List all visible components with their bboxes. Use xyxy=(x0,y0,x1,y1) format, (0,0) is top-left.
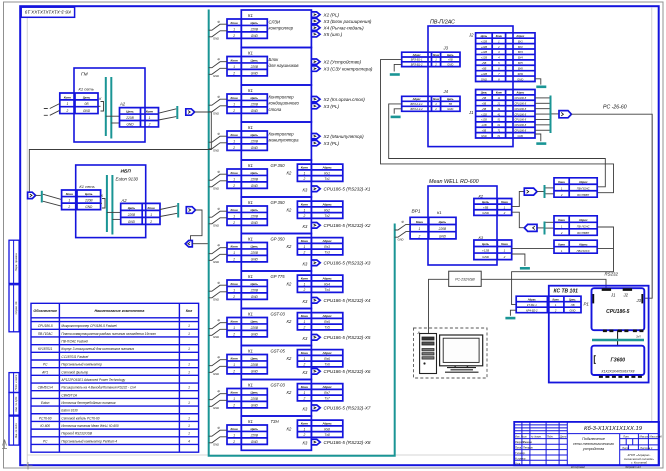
svg-text:РС -26-60: РС -26-60 xyxy=(603,105,627,111)
svg-text:220В: 220В xyxy=(84,199,93,203)
input plug from PV-L xyxy=(524,224,537,231)
svg-text:GND: GND xyxy=(251,221,259,225)
title block frame xyxy=(514,422,659,465)
svg-text:Расширитель на 4 Выхода/Питани: Расширитель на 4 Выхода/Питания RS232 - … xyxy=(61,386,135,390)
svg-text:К3: К3 xyxy=(303,261,308,266)
svg-text:GND: GND xyxy=(439,234,447,238)
svg-text:GND: GND xyxy=(251,184,259,188)
device block U6 GP 350 xyxy=(241,197,311,234)
svg-text:2: 2 xyxy=(67,205,70,209)
svg-text:220В: 220В xyxy=(250,251,259,255)
margin box Инв. № дубл. xyxy=(9,393,19,416)
svg-text:GP 775: GP 775 xyxy=(271,274,286,279)
svg-text:2: 2 xyxy=(232,221,235,225)
svg-text:GND: GND xyxy=(85,205,93,209)
wire J4 pin2 to ground xyxy=(394,109,402,114)
wire K5 to K6 chain down to P1 xyxy=(512,227,614,305)
device block U3 Контроллер кондиционного стола xyxy=(241,85,311,122)
wire bars to A2 of UPS xyxy=(107,211,121,213)
wire J2 to ground xyxy=(535,79,541,85)
svg-text:К1: К1 xyxy=(248,419,253,424)
svg-text:GND: GND xyxy=(251,403,259,407)
svg-text:К1: К1 xyxy=(248,163,253,168)
circuit breaker phase wire to U3 xyxy=(209,99,227,105)
svg-text:Цепь: Цепь xyxy=(251,282,259,286)
svg-text:Tx8: Tx8 xyxy=(324,433,330,437)
svg-text:Адрес: Адрес xyxy=(578,180,588,184)
output connector Х2 of U4 xyxy=(311,134,320,139)
circuit breaker phase wire to U1 xyxy=(209,24,227,30)
svg-text:Адрес: Адрес xyxy=(321,385,332,389)
svg-text:К1: К1 xyxy=(248,312,253,317)
svg-text:Сетевой фильтр: Сетевой фильтр xyxy=(61,370,88,374)
personal computer A dashed box xyxy=(414,328,488,378)
processor module CPU186-5 xyxy=(592,288,645,330)
svg-text:GND: GND xyxy=(126,123,134,127)
svg-text:220В: 220В xyxy=(125,116,134,120)
PC tower drive slots xyxy=(422,337,434,340)
circuit breaker GND wire to U4 xyxy=(209,143,227,149)
svg-text:1: 1 xyxy=(67,102,69,106)
margin box Подп. и дата xyxy=(9,373,19,393)
circuit breaker GND wire to U9 xyxy=(209,329,227,335)
svg-text:1: 1 xyxy=(233,397,235,401)
svg-text:Дата: Дата xyxy=(559,436,567,439)
svg-text:2: 2 xyxy=(303,326,306,330)
svg-text:Формат А3: Формат А3 xyxy=(625,465,641,469)
svg-text:Rx2: Rx2 xyxy=(324,208,330,212)
svg-text:Конн: Конн xyxy=(66,192,73,196)
svg-text:Конн: Конн xyxy=(558,218,565,222)
bar at K5 xyxy=(544,222,546,235)
svg-text:Наименование компонента: Наименование компонента xyxy=(94,309,144,313)
interboard bus bar xyxy=(592,339,644,342)
svg-text:CPU186-5: CPU186-5 xyxy=(606,309,630,315)
ground under K3 xyxy=(520,267,530,270)
svg-text:J1: J1 xyxy=(610,292,615,297)
svg-text:GND: GND xyxy=(213,335,219,339)
svg-text:Копировал: Копировал xyxy=(571,465,585,469)
svg-text:2: 2 xyxy=(303,397,306,401)
GZ600 pin bracket left xyxy=(594,356,596,364)
svg-text:Цепь: Цепь xyxy=(251,427,259,431)
GZ600 pin row bottom xyxy=(599,376,642,378)
svg-text:РС: РС xyxy=(43,363,48,367)
svg-text:Конн: Конн xyxy=(231,282,238,286)
svg-text:Tx7: Tx7 xyxy=(324,397,330,401)
svg-text:Х2 (Устройство): Х2 (Устройство) xyxy=(323,59,362,65)
svg-text:CPU186-5 (RS232)-Х3: CPU186-5 (RS232)-Х3 xyxy=(324,261,371,266)
wire A2 UPS to output bar xyxy=(160,206,177,210)
svg-text:Eaton 9130: Eaton 9130 xyxy=(61,409,78,413)
svg-text:Цепь: Цепь xyxy=(126,110,134,114)
device block U12 ТЗН xyxy=(241,416,311,450)
svg-text:РС-232/USB: РС-232/USB xyxy=(455,278,475,282)
svg-text:1: 1 xyxy=(233,177,235,181)
svg-text:Rx5: Rx5 xyxy=(324,320,330,324)
svg-text:2: 2 xyxy=(560,193,563,197)
svg-text:А2: А2 xyxy=(121,198,128,203)
svg-text:СВН5/ТСА: СВН5/ТСА xyxy=(61,393,77,397)
svg-text:К1: К1 xyxy=(248,200,253,205)
svg-text:220В: 220В xyxy=(250,214,259,218)
svg-text:Адрес: Адрес xyxy=(578,218,588,222)
output connector Х2 of U2 xyxy=(311,59,320,64)
ground under P1 xyxy=(505,317,515,320)
svg-text:ИБП: ИБП xyxy=(121,169,132,175)
svg-text:ЗхЛ: ЗхЛ xyxy=(636,335,641,339)
svg-text:К1: К1 xyxy=(248,13,253,18)
svg-text:РС76-60: РС76-60 xyxy=(39,416,52,420)
circuit breaker phase wire to U10 xyxy=(209,360,227,366)
svg-text:ПВ-П/2СС: ПВ-П/2СС xyxy=(577,249,591,253)
circuit breaker phase wire to U4 xyxy=(209,136,227,142)
circuit breaker GND wire to U3 xyxy=(209,106,227,112)
svg-text:Контроллер: Контроллер xyxy=(269,95,295,100)
margin box Справ. № xyxy=(9,285,19,332)
svg-text:Адрес: Адрес xyxy=(321,351,332,355)
wire K3 pin1 to K6 xyxy=(512,247,554,249)
svg-text:Конн: Конн xyxy=(301,277,308,281)
svg-text:1: 1 xyxy=(149,116,151,120)
wire PC-26-60 to CPU J3 xyxy=(571,114,652,298)
svg-text:1: 1 xyxy=(233,288,235,292)
svg-text:Адрес: Адрес xyxy=(321,422,332,426)
svg-text:2: 2 xyxy=(232,403,235,407)
svg-text:2: 2 xyxy=(149,220,152,224)
wire J4 pin1 to K4 table xyxy=(389,104,606,187)
output connector Х4 of U1 xyxy=(311,25,320,30)
svg-text:Контроллер: Контроллер xyxy=(269,132,295,137)
svg-text:Х2 (Манипулятор): Х2 (Манипулятор) xyxy=(323,134,365,139)
svg-text:2: 2 xyxy=(232,440,235,444)
svg-text:Адрес: Адрес xyxy=(321,277,332,281)
output connector K3 of U12 xyxy=(311,439,320,445)
fold line vertical right xyxy=(651,7,653,422)
svg-text:Конн: Конн xyxy=(231,208,238,212)
svg-text:Н.контр.: Н.контр. xyxy=(515,456,526,460)
svg-text:Конн: Конн xyxy=(301,422,308,426)
svg-text:2: 2 xyxy=(418,234,421,238)
svg-text:Петров: Петров xyxy=(523,446,533,450)
svg-text:Tx1: Tx1 xyxy=(324,177,330,181)
svg-text:GND: GND xyxy=(213,111,219,115)
svg-text:220В: 220В xyxy=(250,288,259,292)
battery bars of GM xyxy=(105,77,107,136)
wire K2 pin2 to plug xyxy=(512,212,525,228)
svg-text:GND: GND xyxy=(251,109,259,113)
svg-text:GND: GND xyxy=(213,223,219,227)
wire P1 pin2 to ground xyxy=(510,310,516,316)
svg-text:1: 1 xyxy=(188,386,190,390)
svg-text:Блок: Блок xyxy=(269,57,280,62)
svg-text:220В: 220В xyxy=(250,65,259,69)
svg-text:К1 сеть: К1 сеть xyxy=(79,87,94,92)
output connector Х5 of U1 xyxy=(311,32,320,37)
svg-text:GND: GND xyxy=(213,442,219,446)
svg-text:GND: GND xyxy=(213,372,219,376)
svg-text:J1: J1 xyxy=(468,110,473,115)
svg-text:К1: К1 xyxy=(248,125,253,130)
svg-text:Х3 (СЗУ контроллера): Х3 (СЗУ контроллера) xyxy=(323,67,373,72)
device block UPS Eaton 9130 xyxy=(76,165,146,238)
svg-text:г. Костанай: г. Костанай xyxy=(631,461,647,465)
svg-text:ПВ-Л/2АС: ПВ-Л/2АС xyxy=(577,224,591,228)
CPU pin bar right xyxy=(641,294,643,303)
svg-text:Eaton 9130: Eaton 9130 xyxy=(116,177,139,182)
PC monitor stand xyxy=(447,368,476,370)
output connector K3 of U5 xyxy=(311,186,320,192)
svg-text:1: 1 xyxy=(188,416,190,420)
PC monitor xyxy=(440,335,483,366)
svg-text:Х2 (Кл.орган.стол): Х2 (Кл.орган.стол) xyxy=(323,97,366,102)
fold line horizontal bottom xyxy=(27,454,514,456)
svg-text:Персональный компьютер: Персональный компьютер xyxy=(61,363,102,367)
svg-text:№ докум.: № докум. xyxy=(531,436,542,439)
svg-text:ПВ-П/2АС: ПВ-П/2АС xyxy=(577,186,591,190)
power bus teal C-shape xyxy=(209,10,395,456)
svg-text:GND: GND xyxy=(213,260,219,264)
svg-text:220В: 220В xyxy=(438,227,447,231)
CPU pin bar left xyxy=(592,294,594,303)
svg-text:контроллер: контроллер xyxy=(269,26,294,31)
svg-text:К1: К1 xyxy=(248,383,253,388)
svg-text:Р1: Р1 xyxy=(584,302,590,307)
svg-text:2: 2 xyxy=(232,34,235,38)
circuit breaker phase wire to U5 xyxy=(209,174,227,180)
svg-text:Адрес: Адрес xyxy=(321,166,332,170)
svg-text:Конн: Конн xyxy=(558,180,565,184)
svg-text:1: 1 xyxy=(233,251,235,255)
svg-text:К1: К1 xyxy=(248,349,253,354)
svg-text:1: 1 xyxy=(188,370,190,374)
svg-text:Rx3: Rx3 xyxy=(324,245,330,249)
svg-text:GP 350: GP 350 xyxy=(271,163,286,168)
svg-text:ВР1: ВР1 xyxy=(412,209,421,215)
CPU pin row top xyxy=(602,288,632,291)
svg-text:1: 1 xyxy=(233,214,235,218)
circuit breaker phase wire to U9 xyxy=(209,323,227,329)
output connector K3 of U9 xyxy=(311,335,320,341)
svg-text:2: 2 xyxy=(303,288,306,292)
device block U9 GST-03 xyxy=(241,309,311,346)
svg-text:Цепь: Цепь xyxy=(482,242,489,246)
svg-text:Rx6: Rx6 xyxy=(324,357,330,361)
svg-text:Персональный компьютер Pentium: Персональный компьютер Pentium 4 xyxy=(61,439,117,443)
svg-text:GND: GND xyxy=(251,34,259,38)
svg-text:Пров.: Пров. xyxy=(515,446,522,450)
center mark bottom xyxy=(24,462,33,470)
wire K2 pin1 to plug xyxy=(512,191,525,206)
svg-text:J3: J3 xyxy=(443,46,449,51)
wire K6 right stub xyxy=(597,247,613,249)
wire UPS output loop xyxy=(191,210,203,241)
svg-text:Конн: Конн xyxy=(231,171,238,175)
svg-text:Конн: Конн xyxy=(148,206,155,210)
svg-text:1: 1 xyxy=(68,199,70,203)
svg-text:Цепь: Цепь xyxy=(251,357,259,361)
svg-text:CPU186-5 (RS232)-Х8: CPU186-5 (RS232)-Х8 xyxy=(324,440,371,445)
PC tower vents xyxy=(422,349,434,351)
svg-text:1: 1 xyxy=(188,432,190,436)
svg-text:Конн: Конн xyxy=(416,220,423,224)
svg-text:Переход RS232/USB: Переход RS232/USB xyxy=(61,432,93,436)
svg-text:Tx6: Tx6 xyxy=(324,363,330,367)
svg-text:А2: А2 xyxy=(119,101,126,106)
svg-text:CPU186-5 (RS232)-Х2: CPU186-5 (RS232)-Х2 xyxy=(324,223,371,228)
svg-text:Сетевой кабель РС76-60: Сетевой кабель РС76-60 xyxy=(61,416,99,420)
svg-text:1: 1 xyxy=(304,427,306,431)
wire J3 pin1 to K4 table xyxy=(381,60,614,193)
svg-text:1: 1 xyxy=(233,65,235,69)
circuit breaker GND wire to U1 xyxy=(209,31,227,37)
svg-text:GND: GND xyxy=(83,109,91,113)
svg-text:Перв. примен.: Перв. примен. xyxy=(14,252,18,271)
svg-text:Конн: Конн xyxy=(231,21,238,25)
svg-text:К2: К2 xyxy=(287,356,292,361)
svg-text:Конн: Конн xyxy=(231,96,238,100)
svg-text:Ю-600: Ю-600 xyxy=(40,424,50,428)
svg-text:СЛЗИ: СЛЗИ xyxy=(269,20,282,25)
circuit breaker GND wire to U8 xyxy=(209,292,227,298)
svg-text:GND: GND xyxy=(398,238,404,242)
svg-text:220В: 220В xyxy=(250,102,259,106)
svg-text:стола: стола xyxy=(269,107,282,112)
ground under J3 xyxy=(390,73,400,76)
svg-text:К1: К1 xyxy=(248,274,253,279)
PC tower power button xyxy=(423,362,425,364)
svg-text:К1: К1 xyxy=(248,51,253,56)
output connector Х3 of U4 xyxy=(311,140,320,145)
svg-text:Утв.: Утв. xyxy=(515,461,521,465)
svg-text:220В: 220В xyxy=(250,177,259,181)
svg-text:К3: К3 xyxy=(303,370,308,375)
interboard link wire xyxy=(617,330,619,346)
svg-text:К1: К1 xyxy=(248,237,253,242)
svg-text:Цепь: Цепь xyxy=(251,21,259,25)
svg-text:РС: РС xyxy=(43,439,48,443)
svg-text:220В: 220В xyxy=(250,363,259,367)
svg-text:Конн: Конн xyxy=(231,427,238,431)
svg-text:К1 сеть: К1 сеть xyxy=(79,184,94,189)
svg-text:J3: J3 xyxy=(636,298,642,303)
svg-text:сети технологического: сети технологического xyxy=(573,442,614,446)
bar at K4 xyxy=(544,185,546,198)
svg-text:Масса: Масса xyxy=(640,434,649,438)
svg-text:БС/ПВВТ: БС/ПВВТ xyxy=(577,193,589,197)
svg-text:CPU186-5: CPU186-5 xyxy=(38,324,53,328)
svg-text:Конн: Конн xyxy=(501,242,508,246)
svg-text:1: 1 xyxy=(304,208,306,212)
svg-text:Rx1: Rx1 xyxy=(324,171,330,175)
svg-text:Х3 (PL): Х3 (PL) xyxy=(323,141,340,146)
svg-text:Изм. Лист: Изм. Лист xyxy=(515,436,527,439)
circuit breaker phase wire to U7 xyxy=(209,248,227,254)
circuit breaker phase wire to U6 xyxy=(209,211,227,217)
svg-text:2: 2 xyxy=(232,295,235,299)
svg-text:2: 2 xyxy=(303,214,306,218)
wire bar to K1 of UPS xyxy=(43,194,62,199)
svg-text:К2: К2 xyxy=(287,319,292,324)
svg-text:Х5 (шт.): Х5 (шт.) xyxy=(323,32,343,37)
svg-text:Цепь: Цепь xyxy=(251,245,259,249)
output connector K3 of U8 xyxy=(311,298,320,304)
svg-text:К2: К2 xyxy=(287,208,292,213)
svg-text:К1: К1 xyxy=(248,88,253,93)
svg-text:GST-03: GST-03 xyxy=(271,312,286,317)
svg-text:Конн: Конн xyxy=(301,351,308,355)
svg-text:GND: GND xyxy=(251,332,259,336)
svg-text:GND: GND xyxy=(128,220,136,224)
svg-text:GND: GND xyxy=(213,186,219,190)
output connector Х3 of U3 xyxy=(311,103,320,108)
input plug of UPS xyxy=(28,192,36,198)
svg-text:4: 4 xyxy=(188,439,190,443)
svg-text:2: 2 xyxy=(148,123,151,127)
svg-text:Конн: Конн xyxy=(301,166,308,170)
device block GM xyxy=(74,68,145,142)
device block U1 СЛЗИ контроллер xyxy=(241,10,311,48)
PC monitor base xyxy=(445,371,479,373)
output plug to PV-P xyxy=(524,188,537,195)
svg-text:Кб-3-Х1Х1Х1Х1ХХ.19: Кб-3-Х1Х1Х1Х1ХХ.19 xyxy=(25,10,71,15)
output connector K3 of U7 xyxy=(311,260,320,266)
svg-text:Масштаб: Масштаб xyxy=(650,434,663,438)
svg-text:К3: К3 xyxy=(303,336,308,341)
svg-text:Плата коммутационная раздачи п: Плата коммутационная раздачи питания охл… xyxy=(61,332,156,336)
svg-text:Подключение: Подключение xyxy=(582,437,605,441)
output connector K3 of U6 xyxy=(311,223,320,229)
svg-text:2: 2 xyxy=(232,109,235,113)
svg-text:GND: GND xyxy=(251,71,259,75)
svg-text:Инв. № дубл.: Инв. № дубл. xyxy=(15,396,18,412)
ground under J2 xyxy=(536,86,546,89)
svg-text:220В: 220В xyxy=(250,397,259,401)
svg-text:Tx5: Tx5 xyxy=(324,326,330,330)
svg-text:Кб-3-Х1Х1Х1Х1ХХ.19: Кб-3-Х1Х1Х1Х1ХХ.19 xyxy=(584,426,643,432)
svg-text:Tx4: Tx4 xyxy=(324,288,330,292)
svg-text:К2: К2 xyxy=(287,244,292,249)
svg-text:Подп.: Подп. xyxy=(547,436,554,439)
svg-text:GP 350: GP 350 xyxy=(271,237,286,242)
svg-text:Цепь: Цепь xyxy=(251,391,259,395)
svg-text:Конн: Конн xyxy=(301,385,308,389)
svg-text:GND: GND xyxy=(213,36,219,40)
svg-text:Листов 1: Листов 1 xyxy=(639,446,653,450)
svg-text:1: 1 xyxy=(304,391,306,395)
svg-text:1: 1 xyxy=(233,326,235,330)
svg-text:Т.контр.: Т.контр. xyxy=(515,451,526,455)
svg-text:К2: К2 xyxy=(287,390,292,395)
svg-text:Rx4: Rx4 xyxy=(324,282,330,286)
svg-text:К3: К3 xyxy=(303,224,308,229)
svg-text:GST-03: GST-03 xyxy=(271,383,286,388)
device block U2 Блок для наушников xyxy=(241,48,311,86)
svg-text:Лист: Лист xyxy=(621,446,630,450)
svg-text:Инв. № подл.: Инв. № подл. xyxy=(15,422,18,438)
device block U8 GP 775 xyxy=(241,271,311,309)
svg-text:Адрес: Адрес xyxy=(321,314,332,318)
svg-text:Х1Х2Х3Х4Х5Х6Х7Х8: Х1Х2Х3Х4Х5Х6Х7Х8 xyxy=(600,370,634,374)
svg-text:кондиционного: кондиционного xyxy=(269,101,300,106)
svg-text:GP 350: GP 350 xyxy=(271,200,286,205)
svg-text:Цепь: Цепь xyxy=(251,320,259,324)
device block U4 Контроллер манипулятора xyxy=(241,122,311,160)
wires J1 rows to output bar xyxy=(535,97,550,99)
svg-text:БС/ПВВТ: БС/ПВВТ xyxy=(577,231,589,235)
plug into power bus xyxy=(185,241,192,247)
svg-text:Х4 (Рычаг-педаль): Х4 (Рычаг-педаль) xyxy=(323,26,365,31)
